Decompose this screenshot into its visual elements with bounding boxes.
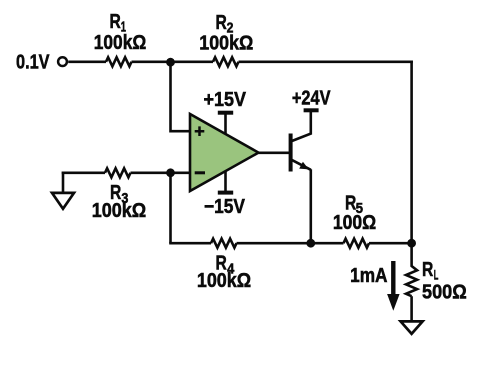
svg-text:100kΩ: 100kΩ [94, 32, 147, 54]
wire: RL to ground (right) [410, 296, 413, 321]
resistor R3 [105, 168, 131, 177]
op-amp U1 [190, 114, 259, 191]
svg-text:R: R [422, 259, 434, 281]
svg-text:100kΩ: 100kΩ [199, 33, 253, 55]
resistor R1 [106, 57, 132, 66]
op-amp -15V supply lead [224, 171, 227, 193]
transistor Q1 base bar [289, 134, 293, 172]
wire: op-amp output to transistor base [259, 152, 290, 155]
wire: right vertical rail down to node D [410, 61, 413, 244]
node B junction dot [166, 168, 175, 177]
ground (right) [401, 321, 423, 333]
resistor RL (vertical) [406, 243, 417, 296]
+24V supply bar [304, 108, 319, 112]
wire: R1 to R2 (through node A) [132, 60, 214, 63]
svg-text:L: L [434, 266, 439, 282]
wire: ground stub to R3 [62, 172, 105, 175]
transistor Q1 emitter arrowhead [299, 162, 309, 170]
wire: ground stub vertical at left [62, 172, 65, 193]
svg-text:+15V: +15V [204, 89, 247, 111]
wire: node B down to feedback line [169, 173, 172, 243]
svg-text:−15V: −15V [204, 196, 246, 218]
svg-text:100Ω: 100Ω [333, 212, 376, 234]
resistor R4 [211, 239, 237, 248]
resistor R2 [213, 57, 239, 66]
1mA current arrow [391, 261, 395, 297]
wire: transistor emitter down to node C [309, 169, 312, 243]
-15V supply bar [218, 191, 233, 195]
svg-text:0.1V: 0.1V [16, 52, 50, 74]
svg-text:100kΩ: 100kΩ [197, 270, 251, 292]
resistor R5 [344, 239, 370, 248]
node D junction dot [407, 239, 416, 248]
op-amp +15V supply lead [224, 113, 227, 134]
wire: R3 to op-amp - input (node B) [131, 172, 191, 175]
transistor Q1 emitter [291, 159, 311, 170]
node A junction dot [166, 58, 175, 67]
svg-text:R: R [110, 11, 122, 33]
input terminal (0.1V source) [58, 57, 67, 66]
ground (left) [52, 193, 74, 209]
wire: R5 to node D [369, 242, 412, 245]
+15V supply bar [218, 111, 233, 115]
op-amp - input symbol [195, 171, 205, 174]
wire: node A down to op-amp + input [171, 62, 191, 131]
wire: R2 to top-right corner [239, 60, 413, 63]
wire: R4 to node C [237, 242, 311, 245]
wire: terminal to R1 [68, 60, 106, 63]
svg-text:100kΩ: 100kΩ [92, 200, 147, 222]
svg-text:+24V: +24V [292, 88, 331, 110]
transistor Q1 collector [291, 111, 311, 142]
wire: node C to R5 [311, 242, 344, 245]
wire: feedback line to R4 [169, 242, 211, 245]
node C junction dot [306, 239, 315, 248]
svg-text:R: R [216, 12, 228, 34]
svg-text:1mA: 1mA [350, 265, 387, 287]
svg-text:500Ω: 500Ω [422, 282, 467, 304]
op-amp + input symbol [195, 126, 205, 136]
